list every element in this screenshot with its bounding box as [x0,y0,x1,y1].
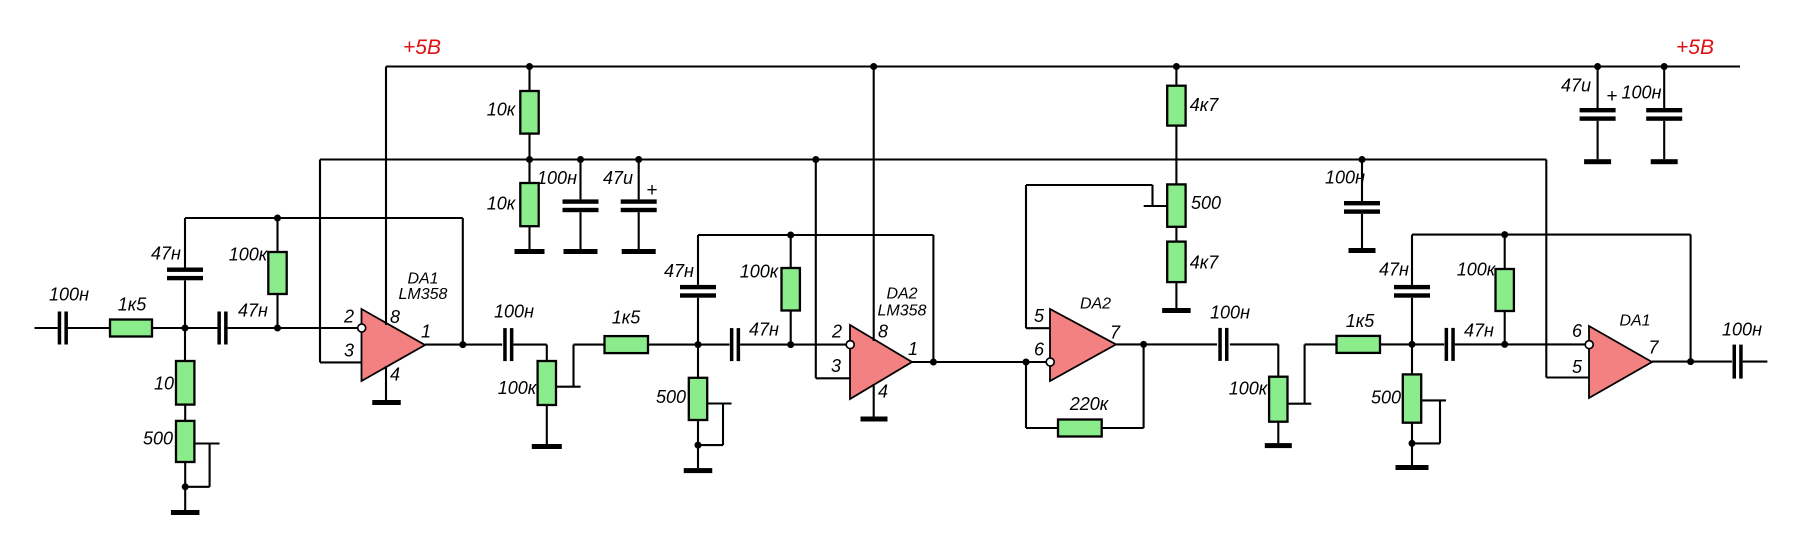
svg-text:1: 1 [908,339,918,359]
resistor 100k fb stage2 [740,262,800,311]
resistor 100k fb stage3 [1457,260,1514,312]
wire bias to pin3 DA2.1 [815,160,817,379]
junction +5V divider2 [1173,63,1180,70]
ground 10k divider [515,249,545,254]
node A junction [182,325,189,332]
wire node C down to 500 [1411,344,1413,374]
junction trimmer2 bottom [695,442,702,449]
wire R1 to node A [152,327,217,329]
wire 47u stem top [1597,67,1599,109]
wire feedback stage3 [1412,234,1691,236]
resistor 10k lower [520,183,538,226]
svg-text:6: 6 [1034,340,1045,360]
svg-text:100н: 100н [1325,168,1365,188]
wire 100k top stem stage2 [790,235,792,268]
resistor 500 trimmer stage3 [1371,374,1421,422]
svg-text:1: 1 [421,322,431,342]
svg-text:100н: 100н [1722,320,1762,340]
svg-text:10: 10 [154,374,174,394]
wire to pin2 DA1.1 [228,327,358,329]
wire trimmer2 wiper drop [722,404,724,446]
wire trimmer4 wiper stub [1421,399,1446,401]
wire pin3 DA1.1 [320,361,362,363]
wire pin5 DA2.2 [1026,327,1050,329]
junction output DA2.1 [930,359,937,366]
wire bias to pin5 DA1.2 [1545,160,1547,378]
resistor 500 trimmer stage1 [143,421,194,462]
junction trimmer4 bottom [1409,440,1416,447]
svg-text:100н: 100н [1622,83,1662,103]
svg-text:100к: 100к [1457,260,1497,280]
ground Vref 47u [622,249,656,254]
node C junction stage3 [1409,341,1416,348]
ground trimmer2 [684,468,713,473]
wire pin5 riser [1025,185,1027,328]
op-amp DA2.2 LM358 [1050,309,1116,381]
wire pin4 DA2.1 to ground [873,384,875,417]
wire trimmer1 wiper stub [194,442,219,444]
wire trimmer1 wiper return [185,486,209,488]
resistor 500 trimmer bias [1167,184,1221,226]
svg-text:500: 500 [1371,388,1401,408]
junction 100k-pin2 stage2 [787,341,794,348]
wire trimmer3 wiper stub [1144,205,1168,207]
junction bias pin3 DA2.1 [812,156,819,163]
junction trimmer1 bottom [182,483,189,490]
junction output DA2.2 [1140,341,1147,348]
wire 4k7 to ground [1175,282,1177,308]
capacitor 47u supply electrolytic [1561,76,1618,121]
wire node B down to 500 [697,345,699,378]
svg-text:1к5: 1к5 [1346,311,1376,331]
wire 10k to 10k [528,134,530,183]
wire cap to pot top [513,344,546,346]
wire pot1 bottom stem [546,405,548,444]
junction 100k-pin2 stage1 [274,325,281,332]
junction 100k-pin6 stage3 [1501,341,1508,348]
resistor 4k7 upper [1167,86,1219,126]
wire 500 to ground stage3 [1411,423,1413,465]
svg-text:47н: 47н [151,244,181,264]
junction +5V 100n [1661,63,1668,70]
wire output up to feedback 3 [1690,235,1692,362]
wire node C up to cap [1411,298,1413,345]
junction Vref 100n [577,156,584,163]
wire input stub [35,327,58,329]
svg-text:3: 3 [344,341,354,361]
junction fb-100k stage3 [1501,231,1508,238]
resistor 10 stage1 [154,361,194,405]
wire output stub [1743,361,1768,363]
wire Vref bias rail [320,158,1546,160]
wire pot2 bottom stem [1277,422,1279,443]
capacitor 47n series stage3 [1445,321,1494,361]
wire 1k5 to node C [1380,343,1444,345]
svg-text:3: 3 [831,356,841,376]
wire node A up to cap [184,281,186,329]
svg-text:47н: 47н [1379,260,1409,280]
resistor 220k feedback [1058,394,1110,437]
svg-text:7: 7 [1110,323,1121,343]
op-amp DA1.1 LM358 [362,309,426,381]
potentiometer 100k stage2 [498,361,556,405]
wire 10k to ground [528,226,530,249]
capacitor 100n coupling stage3 [1210,303,1250,361]
potentiometer 100k stage3 [1229,377,1288,422]
wire 500 to ground stage2 [697,420,699,468]
wire bias to pin3 DA1.1 [319,160,321,363]
op-amp DA2.1 LM358 [850,325,912,399]
wire pot1 wiper riser [572,345,574,387]
wire 100k bottom stem [276,294,278,328]
svg-text:2: 2 [343,307,354,327]
node B junction stage2 [695,341,702,348]
svg-text:500: 500 [143,429,173,449]
capacitor 47n fb stage2 [664,261,716,298]
ground input divider [171,510,200,515]
junction output DA1.1 [459,341,466,348]
capacitor 100n output [1722,320,1762,379]
wire 220k right [1102,427,1144,429]
svg-text:4к7: 4к7 [1190,95,1220,115]
wire 4k7 to 500 [1175,126,1177,185]
wire pin6 to 220k [1025,362,1027,428]
wire trimmer2 wiper stub [707,402,731,404]
wire to pin6 DA1.2 [1455,343,1586,345]
capacitor 47n fb stage3 [1379,260,1430,298]
svg-text:1к5: 1к5 [118,295,148,315]
svg-text:100к: 100к [1229,379,1269,399]
wire feedback stage2 [698,234,933,236]
wire +5V to 4k7 [1175,67,1177,86]
svg-text:500: 500 [1191,193,1221,213]
junction bias 100n [1359,156,1366,163]
wire trimmer1 wiper drop [209,444,211,487]
wire cap to R1 [68,327,110,329]
wire pot2 to R 1k5 [1305,343,1337,345]
wire 100n stem top [1663,67,1665,109]
ground pin4 DA1.1 [372,400,401,405]
wire 220k left [1026,427,1058,429]
ground bias 100n [1349,248,1376,253]
wire 100k bottom stem stage3 [1504,311,1506,344]
wire 100n to gnd [1663,121,1665,159]
ground trimmer4 [1396,465,1429,470]
junction Vref midpoint [526,156,533,163]
capacitor 100n Vref [537,168,598,212]
wire trimmer3 wiper drop [1151,185,1153,206]
svg-text:47н: 47н [1464,321,1494,341]
ground Vref 100n [564,249,598,254]
junction pin6 DA2.2 [1023,359,1030,366]
wire +5V rail [386,65,1740,67]
svg-text:4: 4 [390,365,400,385]
wire output DA2.2 [1116,343,1217,345]
resistor 100k fb stage1 [229,245,287,295]
junction +5V divider top [526,63,533,70]
capacitor 100n bias decoupling [1325,168,1380,214]
capacitor 47n series stage1 [217,301,268,345]
svg-text:100н: 100н [1210,303,1250,323]
wire bias 100n to gnd [1361,214,1363,248]
capacitor 47u Vref electrolytic [603,168,658,212]
wire pot1 top stem [546,345,548,361]
svg-text:5: 5 [1572,357,1583,377]
wire cap to feedback 3 [1411,235,1413,285]
svg-text:+: + [1606,86,1617,107]
svg-text:6: 6 [1572,321,1583,341]
wire node A down to R10 [184,328,186,361]
junction Vref 47u [635,156,642,163]
wire output up to feedback 2 [932,235,934,362]
wire output DA2.1 [912,361,1046,363]
wire Vref cap 100n stem top [579,160,581,200]
wire 1k5 to node B [648,344,730,346]
svg-text:8: 8 [390,307,400,327]
svg-text:47u: 47u [603,168,633,188]
pin 2 inverting bubble DA1.1 [358,324,366,332]
wire R10 to R500 [184,405,186,421]
svg-text:10к: 10к [487,194,517,214]
svg-text:47н: 47н [238,301,268,321]
svg-text:100н: 100н [537,168,577,188]
wire 500 to 4k7 [1175,227,1177,242]
capacitor 100n input [49,285,89,345]
svg-text:47н: 47н [749,320,779,340]
svg-text:220к: 220к [1069,394,1110,414]
svg-text:500: 500 [656,387,686,407]
resistor 1k5 stage1 [110,295,152,337]
wire pot2 top stem [1277,344,1279,376]
svg-text:4к7: 4к7 [1190,253,1220,273]
svg-text:DA1: DA1 [1619,313,1650,330]
junction output DA1.2 [1687,358,1694,365]
svg-text:+: + [646,180,657,201]
wire 220k up to output [1143,344,1145,428]
ground pot1 [532,444,562,449]
svg-text:100к: 100к [229,245,269,265]
ground pot2 [1265,443,1292,448]
svg-text:DA2: DA2 [886,286,917,303]
capacitor 47n fb stage1 [151,244,203,281]
wire pin5 DA1.2 [1546,376,1589,378]
wire pin4 DA1.1 to ground [385,366,387,400]
wire output up to feedback [462,218,464,345]
wire pot1 to R 1k5 [574,344,605,346]
resistor 500 trimmer stage2 [656,378,707,420]
wire Vref cap 47u stem top [638,160,640,200]
wire pin8 DA1.1 to +5V [385,67,387,326]
wire trimmer4 wiper return [1412,442,1440,444]
wire trimmer2 wiper return [698,444,723,446]
wire feedback stage1 [185,217,463,219]
wire output DA1.1 [425,344,502,346]
svg-text:100к: 100к [740,262,780,282]
capacitor 100n coupling stage2 [494,302,534,362]
resistor 10k upper [487,91,539,214]
wire Vref 100n to gnd [579,212,581,249]
resistor 1k5 stage2 [605,308,649,354]
svg-text:100к: 100к [498,378,538,398]
svg-text:10к: 10к [487,100,517,120]
wire node B up to cap [697,298,699,345]
svg-text:7: 7 [1648,338,1659,358]
capacitor 47n series stage2 [730,320,779,362]
svg-text:2: 2 [831,322,842,342]
wire pin3 DA2.1 [816,377,850,379]
wire +5V to 10k [528,67,530,92]
wire output DA1.2 [1652,361,1732,363]
pin 6 inverting bubble DA1.2 [1585,341,1593,349]
wire 100k top stem [276,218,278,252]
resistor 1k5 stage3 [1337,311,1381,353]
wire pot2 wiper stub [1287,403,1312,405]
svg-text:100н: 100н [49,285,89,305]
svg-text:LM358: LM358 [399,286,448,303]
wire 47u to gnd [1597,121,1599,159]
wire trimmer4 wiper drop [1439,400,1441,443]
svg-text:DA1: DA1 [407,271,438,288]
svg-text:47н: 47н [664,261,694,281]
svg-text:5: 5 [1034,306,1045,326]
wire cap to feedback 2 [697,235,699,285]
resistor 4k7 lower [1167,242,1219,283]
svg-text:+5В: +5В [403,36,441,59]
wire 100k bottom stem stage2 [790,311,792,345]
junction fb-100k stage2 [787,232,794,239]
svg-text:+5В: +5В [1676,36,1714,59]
wire bias 100n stem [1361,160,1363,202]
wire cap to pot2 top [1230,343,1278,345]
wire R500 to ground [184,462,186,510]
ground pin4 DA2.1 [861,417,888,422]
junction +5V 47u [1594,63,1601,70]
wire pot2 wiper riser [1304,344,1306,403]
svg-text:4: 4 [878,382,888,402]
wire Vref 47u to gnd [638,212,640,249]
svg-text:100н: 100н [494,302,534,322]
wire to pin2 DA2.1 [740,344,846,346]
pin 6 inverting bubble DA2.2 [1046,358,1054,366]
op-amp DA1.2 LM358 [1589,326,1652,398]
ground 100n supply [1651,159,1678,164]
capacitor 100n supply [1622,83,1683,121]
wire cap up to fb wire [184,218,186,268]
wire pin8 DA2.1 to +5V [873,67,875,342]
svg-text:1к5: 1к5 [612,308,642,328]
svg-text:LM358: LM358 [878,303,927,320]
wire pin5 to trimmer wiper [1026,184,1153,186]
svg-text:DA2: DA2 [1080,296,1111,313]
wire 100k top stem stage3 [1504,235,1506,269]
junction +5V pin8 DA2.1 [870,63,877,70]
ground divider2 [1162,308,1191,313]
pin 2 inverting bubble DA2.1 [846,341,854,349]
svg-text:8: 8 [878,322,888,342]
ground 47u supply [1584,159,1611,164]
wire pot1 wiper stub [555,386,581,388]
svg-text:47u: 47u [1561,76,1591,96]
junction fb-100k stage1 [274,215,281,222]
